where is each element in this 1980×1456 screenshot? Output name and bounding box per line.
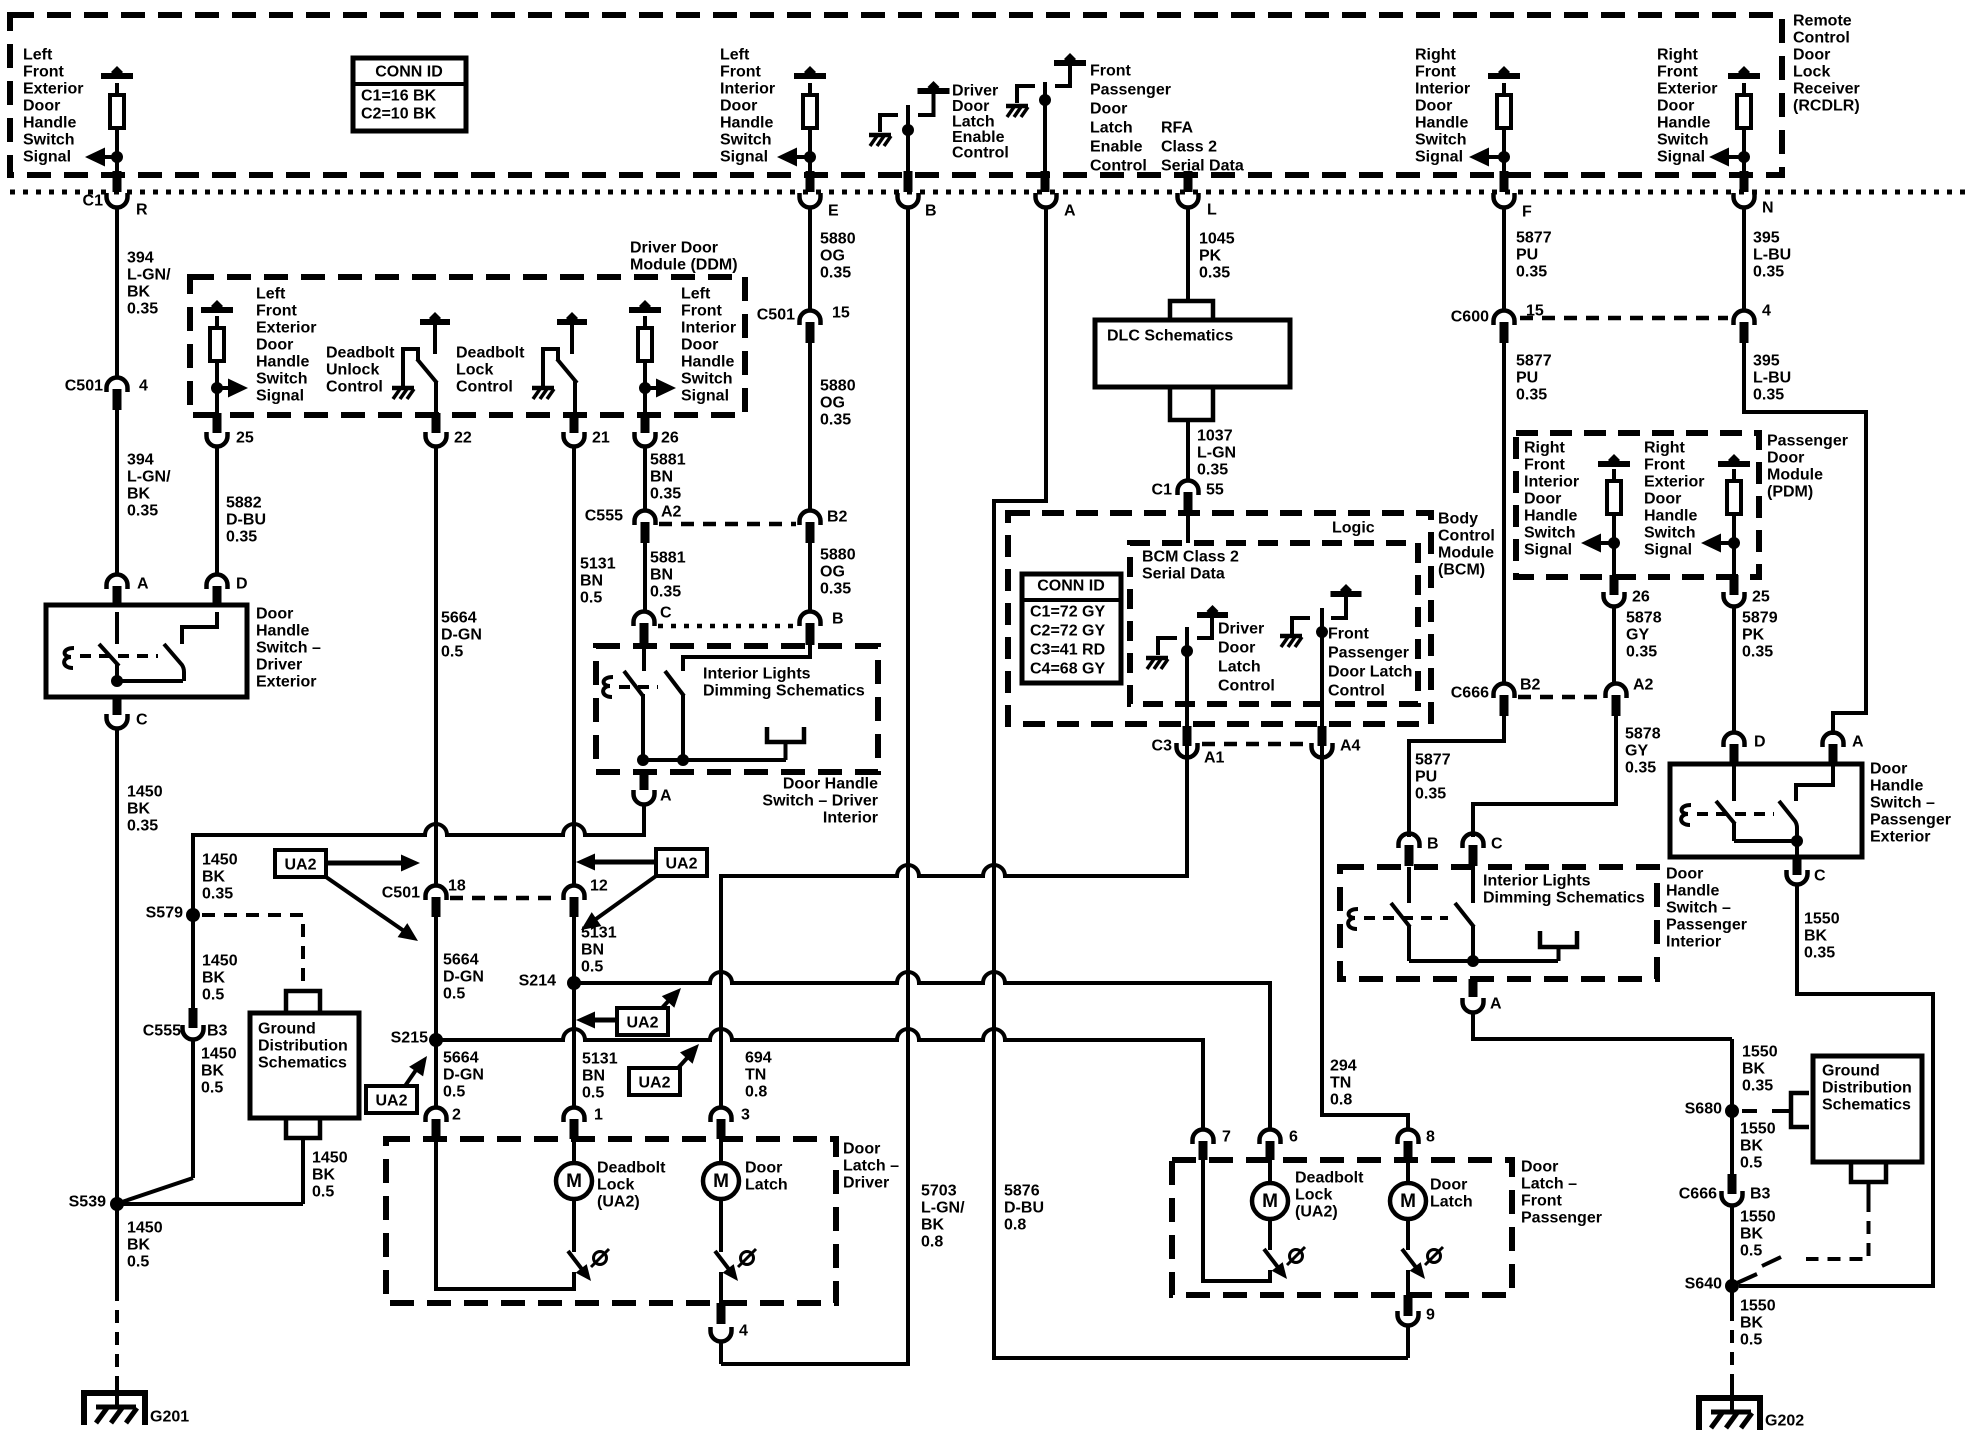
PDM pin 26 <box>1610 575 1619 595</box>
PDM right front exterior door handle switch resistor <box>1718 461 1750 467</box>
svg-text:Control: Control <box>1328 683 1385 700</box>
svg-text:S214: S214 <box>519 973 556 990</box>
svg-text:Front: Front <box>1328 626 1370 643</box>
DLC Schematics box with fork terminals <box>1186 282 1190 302</box>
wire 1550 BK 0.35 to S640 loop <box>1739 886 1933 1286</box>
node: signal junction with left arrow <box>101 155 117 159</box>
svg-text:OG: OG <box>820 564 845 581</box>
svg-text:S539: S539 <box>69 1194 106 1211</box>
svg-text:C1=16 BK: C1=16 BK <box>361 88 437 105</box>
wire 5876 D-BU 0.8 long vertical to passenger door latch <box>994 209 1408 1358</box>
svg-text:GY: GY <box>1625 743 1648 760</box>
svg-text:0.8: 0.8 <box>921 1234 943 1251</box>
svg-text:Control: Control <box>1438 528 1495 545</box>
svg-text:S680: S680 <box>1685 1101 1722 1118</box>
svg-text:D-BU: D-BU <box>226 512 266 529</box>
connector C1 pin R <box>113 171 122 192</box>
connector C600 pin 4 <box>1734 311 1755 326</box>
svg-text:1550: 1550 <box>1804 911 1840 928</box>
connector A2 (C666) <box>1606 684 1627 699</box>
svg-text:394: 394 <box>127 452 154 469</box>
svg-text:5664: 5664 <box>441 610 477 627</box>
svg-text:5882: 5882 <box>226 495 262 512</box>
bus wire from S214 to deadbolt lock passenger pin 6 <box>574 972 1270 1128</box>
dimming continuation bracket <box>1540 931 1577 947</box>
door latch motor driver <box>719 1139 723 1163</box>
svg-text:C2=72 GY: C2=72 GY <box>1030 623 1105 640</box>
svg-text:Driver: Driver <box>843 1175 889 1192</box>
svg-text:Door: Door <box>23 98 60 115</box>
wire 1550 BK 0.35 to S680 <box>1473 1014 1732 1039</box>
Ground Distribution Schematics box (right) <box>1813 1056 1922 1162</box>
svg-text:DLC Schematics: DLC Schematics <box>1107 328 1233 345</box>
svg-text:A: A <box>137 576 149 593</box>
svg-text:C: C <box>1491 836 1503 853</box>
pin 2 connector <box>426 1108 447 1123</box>
svg-text:0.35: 0.35 <box>202 886 233 903</box>
svg-text:Door: Door <box>1870 761 1907 778</box>
svg-text:0.35: 0.35 <box>1516 387 1547 404</box>
wire 394 L-GN/BK 0.35 upper <box>115 209 119 376</box>
svg-text:C501: C501 <box>65 378 103 395</box>
connector C501 pin 15 <box>800 311 821 326</box>
Passenger Door Module (PDM) box <box>1516 433 1759 577</box>
svg-text:Exterior: Exterior <box>256 674 316 691</box>
svg-text:0.5: 0.5 <box>127 1254 149 1271</box>
connector pin C below passenger exterior switch <box>1793 857 1802 875</box>
svg-text:Handle: Handle <box>720 115 773 132</box>
connector pin A (passenger exterior switch) <box>1823 733 1844 747</box>
svg-text:Deadbolt: Deadbolt <box>326 345 395 362</box>
svg-text:5664: 5664 <box>443 952 479 969</box>
C666 connector link dashed <box>1518 695 1602 700</box>
svg-text:PK: PK <box>1742 627 1765 644</box>
connector C501 pin 18 <box>426 886 447 901</box>
svg-text:Passenger: Passenger <box>1666 917 1747 934</box>
deadbolt lock passenger switch blade <box>1268 1219 1272 1250</box>
BCM Logic dashed box <box>1008 513 1431 724</box>
deadbolt lock (UA2) motor driver <box>572 1139 576 1163</box>
svg-text:Receiver: Receiver <box>1793 81 1860 98</box>
svg-text:Door: Door <box>1218 640 1255 657</box>
svg-text:Serial Data: Serial Data <box>1142 566 1225 583</box>
wire 1450 BK 0.5 GDS to S539 bus <box>301 1161 305 1204</box>
svg-text:M: M <box>713 1171 729 1192</box>
wire 1450 BK 0.35 down left side <box>115 730 119 1204</box>
svg-text:Door Handle: Door Handle <box>783 776 878 793</box>
Door Latch - Front Passenger box <box>1172 1160 1512 1295</box>
svg-text:B: B <box>1427 836 1439 853</box>
svg-text:Handle: Handle <box>1524 508 1577 525</box>
connector row dotted line <box>10 190 1970 195</box>
Interior Lights Dimming Schematics box (passenger) <box>1340 867 1657 979</box>
svg-text:Door: Door <box>720 98 757 115</box>
svg-text:Switch: Switch <box>1657 132 1709 149</box>
svg-text:Interior Lights: Interior Lights <box>1483 873 1591 890</box>
svg-text:Door: Door <box>1644 491 1681 508</box>
svg-text:Door Latch: Door Latch <box>1328 664 1412 681</box>
svg-text:8: 8 <box>1426 1129 1435 1146</box>
svg-text:25: 25 <box>236 430 254 447</box>
Door Handle Switch - Passenger Exterior box <box>1670 764 1862 857</box>
connector C1 pin 55 into BCM <box>1178 481 1199 496</box>
svg-text:GY: GY <box>1626 627 1649 644</box>
svg-text:Class 2: Class 2 <box>1161 139 1217 156</box>
pin 1 connector <box>564 1108 585 1123</box>
connector C3 pin A1 <box>1183 726 1192 746</box>
battery feed contact right <box>918 88 950 94</box>
svg-text:A2: A2 <box>1633 677 1654 694</box>
svg-text:Switch: Switch <box>23 132 75 149</box>
node: signal junction with left arrow <box>1725 155 1744 159</box>
svg-text:394: 394 <box>127 250 154 267</box>
svg-text:0.35: 0.35 <box>127 301 158 318</box>
svg-text:5877: 5877 <box>1415 752 1451 769</box>
svg-text:A: A <box>1064 203 1076 220</box>
svg-text:Enable: Enable <box>1090 139 1143 156</box>
svg-text:B: B <box>925 203 937 220</box>
bus wire from S579 up and right to interior-dimming pin A <box>193 806 644 915</box>
svg-text:Front: Front <box>1524 457 1566 474</box>
svg-text:Left: Left <box>720 47 750 64</box>
svg-text:1450: 1450 <box>127 1220 163 1237</box>
connector pin B <box>904 171 913 192</box>
svg-text:Left: Left <box>256 286 286 303</box>
svg-text:Module: Module <box>1767 467 1823 484</box>
Ground Distribution Schematics box (left) <box>286 991 320 1013</box>
DDM pin 25 <box>213 413 222 433</box>
svg-text:C4=68 GY: C4=68 GY <box>1030 661 1105 678</box>
svg-text:Body: Body <box>1438 511 1478 528</box>
svg-text:Latch: Latch <box>745 1177 788 1194</box>
ground G202 <box>1730 1385 1734 1412</box>
svg-text:5881: 5881 <box>650 550 686 567</box>
RCDLR left front interior door handle switch input - resistor <box>794 73 826 79</box>
svg-text:Door: Door <box>843 1141 880 1158</box>
PDM pin 25 <box>1730 575 1739 595</box>
svg-text:Signal: Signal <box>681 388 729 405</box>
svg-text:Front: Front <box>1415 64 1457 81</box>
svg-text:Interior Lights: Interior Lights <box>703 666 811 683</box>
svg-text:BCM Class 2: BCM Class 2 <box>1142 549 1239 566</box>
svg-text:B2: B2 <box>827 509 848 526</box>
svg-text:Interior: Interior <box>681 320 736 337</box>
svg-text:D-GN: D-GN <box>443 969 484 986</box>
UA2 option tag left of pin2 with arrow <box>366 1086 417 1113</box>
ground G201 <box>115 1381 119 1407</box>
svg-text:PU: PU <box>1516 370 1538 387</box>
dashed wire S579 to ground distribution bracket <box>202 915 303 987</box>
svg-text:Unlock: Unlock <box>326 362 379 379</box>
BCM driver door latch enable control driver node <box>906 105 910 173</box>
driver dimming switch internals <box>642 646 646 671</box>
svg-text:Handle: Handle <box>1415 115 1468 132</box>
svg-text:BK: BK <box>1740 1226 1764 1243</box>
svg-text:0.35: 0.35 <box>1742 1078 1773 1095</box>
svg-text:C501: C501 <box>382 885 420 902</box>
wire 5664 D-GN 0.5 seg3 to pin 2 <box>434 1046 438 1106</box>
PDM right front interior door handle switch resistor <box>1598 461 1630 467</box>
svg-text:Enable: Enable <box>952 129 1005 146</box>
svg-text:294: 294 <box>1330 1058 1357 1075</box>
svg-text:OG: OG <box>820 395 845 412</box>
svg-text:L: L <box>1207 202 1217 219</box>
wire 1550 BK 0.5 to S640 <box>1730 1207 1734 1286</box>
svg-text:Deadbolt: Deadbolt <box>597 1160 666 1177</box>
wire 5878 GY 0.35 to passenger interior dimming pin C <box>1473 716 1616 837</box>
svg-text:0.5: 0.5 <box>441 644 463 661</box>
svg-text:0.35: 0.35 <box>1753 387 1784 404</box>
svg-text:C: C <box>1814 868 1826 885</box>
svg-text:TN: TN <box>1330 1075 1351 1092</box>
connector pin B into passenger dimming <box>1399 834 1420 849</box>
svg-text:Lock: Lock <box>456 362 493 379</box>
deadbolt lock (UA2) passenger motor <box>1268 1160 1272 1183</box>
svg-text:395: 395 <box>1753 353 1780 370</box>
svg-text:Switch –: Switch – <box>1666 900 1731 917</box>
svg-text:0.35: 0.35 <box>1742 644 1773 661</box>
C3 connector link dashed <box>1202 742 1305 747</box>
wire 5880 OG 0.35 seg2 <box>808 343 812 509</box>
svg-text:9: 9 <box>1426 1307 1435 1324</box>
svg-text:Interior: Interior <box>1524 474 1579 491</box>
svg-text:Schematics: Schematics <box>258 1055 347 1072</box>
svg-text:(PDM): (PDM) <box>1767 484 1813 501</box>
svg-text:D-BU: D-BU <box>1004 1200 1044 1217</box>
svg-text:1037: 1037 <box>1197 428 1233 445</box>
UA2 option tag above S215 bus with arrows <box>617 1008 668 1035</box>
svg-text:Interior: Interior <box>823 810 878 827</box>
svg-text:D-GN: D-GN <box>441 627 482 644</box>
svg-text:BK: BK <box>201 1063 225 1080</box>
svg-text:Switch: Switch <box>1415 132 1467 149</box>
svg-text:5703: 5703 <box>921 1183 957 1200</box>
svg-text:(RCDLR): (RCDLR) <box>1793 98 1860 115</box>
svg-text:Door: Door <box>1793 47 1830 64</box>
svg-text:Signal: Signal <box>256 388 304 405</box>
door latch passenger switch blade <box>1406 1219 1410 1250</box>
connector C501 pin 12 <box>564 886 585 901</box>
connector C666 pin B3 <box>1728 1174 1737 1194</box>
svg-text:D: D <box>1754 734 1766 751</box>
Interior Lights Dimming Schematics box (driver) <box>596 646 878 772</box>
svg-text:OG: OG <box>820 248 845 265</box>
svg-text:0.35: 0.35 <box>820 581 851 598</box>
svg-text:Driver Door: Driver Door <box>630 240 718 257</box>
svg-text:Front: Front <box>720 64 762 81</box>
DDM left front exterior door handle switch signal resistor <box>201 307 233 313</box>
svg-text:Control: Control <box>326 379 383 396</box>
svg-text:1450: 1450 <box>127 784 163 801</box>
svg-text:BK: BK <box>202 970 226 987</box>
svg-text:0.35: 0.35 <box>1415 786 1446 803</box>
svg-text:Handle: Handle <box>1666 883 1719 900</box>
BCM front passenger door latch enable control driver node <box>1043 82 1047 173</box>
wire 1450 BK 0.5 to S539 <box>191 1041 195 1178</box>
svg-text:21: 21 <box>592 430 610 447</box>
svg-text:5878: 5878 <box>1626 610 1662 627</box>
svg-text:1450: 1450 <box>312 1150 348 1167</box>
svg-text:Switch –: Switch – <box>1870 795 1935 812</box>
svg-text:Control: Control <box>1090 158 1147 175</box>
svg-text:BN: BN <box>581 942 604 959</box>
wire 5664 D-GN 0.5 seg1 <box>434 448 438 884</box>
svg-text:CONN ID: CONN ID <box>1037 578 1105 595</box>
svg-text:5879: 5879 <box>1742 610 1778 627</box>
DDM pin 22 <box>432 413 441 433</box>
dashed wire to ground G201 <box>115 1210 119 1288</box>
svg-text:0.5: 0.5 <box>201 1080 223 1097</box>
svg-text:Handle: Handle <box>1657 115 1710 132</box>
svg-text:Exterior: Exterior <box>1644 474 1704 491</box>
svg-text:22: 22 <box>454 430 472 447</box>
svg-text:Left: Left <box>681 286 711 303</box>
wire down to S680 <box>1730 1039 1734 1111</box>
svg-text:Door: Door <box>1666 866 1703 883</box>
svg-text:5131: 5131 <box>580 556 616 573</box>
svg-text:L-GN/: L-GN/ <box>127 267 171 284</box>
link S680 to ground distribution bracket <box>1742 1109 1757 1113</box>
svg-text:Module: Module <box>1438 545 1494 562</box>
splice S680 <box>1725 1104 1739 1118</box>
svg-text:5880: 5880 <box>820 547 856 564</box>
svg-text:Door: Door <box>745 1160 782 1177</box>
svg-text:UA2: UA2 <box>638 1075 670 1092</box>
wire 5664 D-GN 0.5 seg2 <box>434 917 438 1034</box>
connector C555 pin B2 <box>800 511 821 526</box>
UA2 option tag near C501-18 with arrows <box>275 850 326 877</box>
wire 5703 L-GN/BK 0.8 long vertical to driver door latch <box>721 209 908 1364</box>
svg-text:Deadbolt: Deadbolt <box>456 345 525 362</box>
svg-text:0.5: 0.5 <box>580 590 602 607</box>
svg-text:395: 395 <box>1753 230 1780 247</box>
svg-text:L-BU: L-BU <box>1753 370 1791 387</box>
svg-text:BN: BN <box>650 469 673 486</box>
svg-text:4: 4 <box>1762 303 1771 320</box>
svg-text:BK: BK <box>1742 1061 1766 1078</box>
svg-text:F: F <box>1522 204 1532 221</box>
svg-text:(BCM): (BCM) <box>1438 562 1485 579</box>
switch blade <box>557 359 577 383</box>
svg-text:12: 12 <box>590 878 608 895</box>
wire 1550 BK 0.5 S680 to C666-B3 <box>1730 1117 1734 1175</box>
svg-text:Latch: Latch <box>1430 1194 1473 1211</box>
svg-text:Remote: Remote <box>1793 13 1852 30</box>
svg-text:L-GN/: L-GN/ <box>127 469 171 486</box>
svg-text:Passenger: Passenger <box>1328 645 1409 662</box>
svg-text:0.5: 0.5 <box>582 1085 604 1102</box>
svg-text:Door: Door <box>681 337 718 354</box>
svg-text:5664: 5664 <box>443 1050 479 1067</box>
svg-text:S215: S215 <box>391 1030 428 1047</box>
RCDLR right front interior door handle switch input - resistor <box>1488 73 1520 79</box>
svg-text:S640: S640 <box>1685 1276 1722 1293</box>
svg-text:Front: Front <box>1644 457 1686 474</box>
svg-text:A4: A4 <box>1340 738 1361 755</box>
svg-text:Latch –: Latch – <box>843 1158 899 1175</box>
svg-text:(UA2): (UA2) <box>597 1194 640 1211</box>
svg-text:5880: 5880 <box>820 378 856 395</box>
svg-text:PU: PU <box>1415 769 1437 786</box>
dimming schematic continuation bracket <box>767 727 804 742</box>
svg-text:15: 15 <box>832 305 850 322</box>
front passenger door latch control output driver <box>1320 608 1324 757</box>
svg-text:0.35: 0.35 <box>650 486 681 503</box>
svg-text:0.35: 0.35 <box>1516 264 1547 281</box>
svg-text:694: 694 <box>745 1050 772 1067</box>
svg-text:Lock: Lock <box>597 1177 634 1194</box>
svg-text:C: C <box>660 605 672 622</box>
C501 connector link dashed <box>450 896 560 901</box>
svg-text:1550: 1550 <box>1740 1121 1776 1138</box>
svg-text:Passenger: Passenger <box>1090 82 1171 99</box>
svg-text:0.5: 0.5 <box>443 1084 465 1101</box>
svg-text:BK: BK <box>1804 928 1828 945</box>
svg-text:Signal: Signal <box>23 149 71 166</box>
svg-text:BN: BN <box>580 573 603 590</box>
svg-text:RFA: RFA <box>1161 120 1193 137</box>
svg-text:1450: 1450 <box>202 953 238 970</box>
svg-text:BN: BN <box>650 567 673 584</box>
svg-text:C555: C555 <box>143 1023 181 1040</box>
svg-text:C1=72 GY: C1=72 GY <box>1030 604 1105 621</box>
svg-text:5876: 5876 <box>1004 1183 1040 1200</box>
wire 5880 OG 0.35 seg1 <box>808 209 812 309</box>
door latch passenger motor <box>1406 1160 1410 1183</box>
svg-text:0.5: 0.5 <box>202 987 224 1004</box>
svg-text:0.5: 0.5 <box>443 986 465 1003</box>
battery feed contact right <box>1054 60 1086 66</box>
svg-text:Module (DDM): Module (DDM) <box>630 257 738 274</box>
svg-text:0.8: 0.8 <box>1004 1217 1026 1234</box>
wire 5880 OG 0.35 seg3 <box>808 543 812 610</box>
svg-text:L-BU: L-BU <box>1753 247 1791 264</box>
DDM pin 21 <box>570 413 579 433</box>
svg-text:Door: Door <box>1090 101 1127 118</box>
svg-text:A: A <box>1852 734 1864 751</box>
svg-text:0.35: 0.35 <box>226 529 257 546</box>
svg-text:26: 26 <box>661 430 679 447</box>
svg-text:25: 25 <box>1752 589 1770 606</box>
C555 connector link dashed <box>659 522 796 527</box>
svg-text:UA2: UA2 <box>626 1015 658 1032</box>
svg-text:1550: 1550 <box>1740 1209 1776 1226</box>
svg-text:BK: BK <box>127 284 151 301</box>
svg-text:5877: 5877 <box>1516 230 1552 247</box>
svg-text:Exterior: Exterior <box>1870 829 1930 846</box>
svg-text:R: R <box>136 202 148 219</box>
svg-text:0.8: 0.8 <box>1330 1092 1352 1109</box>
svg-text:BN: BN <box>582 1068 605 1085</box>
wire 5877 PU 0.35 to passenger interior dimming pin B <box>1409 716 1504 837</box>
svg-text:BK: BK <box>127 801 151 818</box>
connector pin F <box>1500 171 1509 192</box>
svg-text:Handle: Handle <box>256 354 309 371</box>
svg-text:C3=41 RD: C3=41 RD <box>1030 642 1105 659</box>
svg-text:0.5: 0.5 <box>312 1184 334 1201</box>
svg-text:Exterior: Exterior <box>256 320 316 337</box>
svg-text:Right: Right <box>1524 440 1566 457</box>
deadbolt lock switch blade with arrow <box>572 1199 576 1252</box>
svg-text:Passenger: Passenger <box>1521 1210 1602 1227</box>
wire 5881 BN 0.35 seg1 <box>643 448 647 509</box>
svg-text:1550: 1550 <box>1742 1044 1778 1061</box>
svg-text:Ground: Ground <box>258 1021 316 1038</box>
svg-text:Driver: Driver <box>256 657 302 674</box>
svg-text:Handle: Handle <box>1870 778 1923 795</box>
svg-text:0.5: 0.5 <box>1740 1332 1762 1349</box>
connector pin D (passenger exterior switch) <box>1724 733 1745 747</box>
